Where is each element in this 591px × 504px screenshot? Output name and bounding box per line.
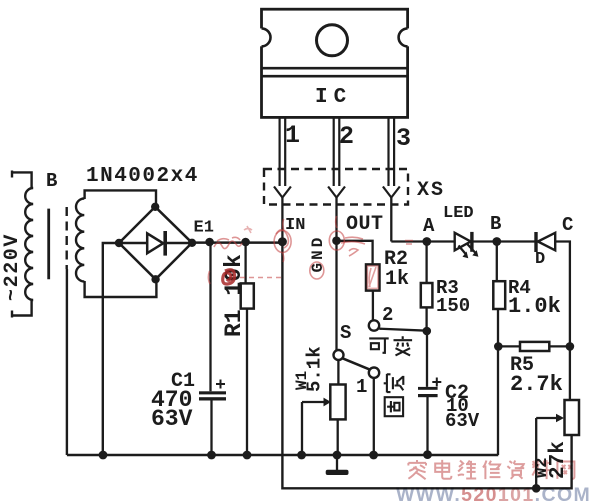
svg-text:S: S <box>340 322 351 344</box>
wire: contact 2 to node <box>379 329 427 331</box>
wire: bridge positive to IN node <box>192 241 283 244</box>
IC pin 2 <box>328 117 345 197</box>
node on outer bottom wire <box>532 484 541 493</box>
svg-text:1: 1 <box>356 376 367 398</box>
node A <box>422 237 431 246</box>
wire: bridge negative to ground rail <box>103 243 119 455</box>
IC package TO-220 <box>262 9 408 117</box>
node on GND line <box>332 236 341 245</box>
svg-text:1N4002x4: 1N4002x4 <box>86 165 199 188</box>
svg-text:1: 1 <box>285 121 300 150</box>
LED <box>455 233 471 251</box>
bridge vertex nodes <box>151 203 159 211</box>
svg-text:1k: 1k <box>385 268 409 291</box>
svg-text:XS: XS <box>417 179 445 202</box>
node R5 right <box>566 342 575 351</box>
node R1 top <box>241 238 250 247</box>
svg-text:63V: 63V <box>151 406 193 432</box>
svg-text:5.1k: 5.1k <box>304 346 326 392</box>
svg-text:LED: LED <box>443 204 474 223</box>
node R5 left <box>494 342 503 351</box>
svg-text:2: 2 <box>382 304 393 326</box>
bridge rectifier 1N4002x4 <box>119 207 192 279</box>
potentiometer W1 5.1k <box>302 360 338 455</box>
transformer B secondary winding <box>76 190 156 297</box>
transformer core bar <box>47 209 50 280</box>
node on contact2 wire / R3 / C2 <box>423 327 432 336</box>
svg-text:D: D <box>535 250 545 269</box>
svg-text:63V: 63V <box>445 410 480 432</box>
ground symbol <box>336 455 338 471</box>
potentiometer W2 27k <box>565 400 580 435</box>
svg-text:A: A <box>423 215 435 237</box>
resistor R5 2.7k <box>498 345 570 347</box>
svg-text:R1 10k: R1 10k <box>221 254 247 337</box>
wire: outer bottom (IN line to W2) <box>282 242 571 489</box>
wire: contact 1 to ground rail <box>373 378 375 455</box>
wire: shield to ground rail <box>66 269 68 455</box>
diode D <box>534 232 537 252</box>
label 固定 (fixed, rotated) <box>384 374 404 416</box>
IC tab separation double line <box>262 68 407 76</box>
wire: D to node C and down to W2 <box>555 242 570 401</box>
svg-text:B: B <box>46 170 57 192</box>
label 可变 (variable) <box>369 336 412 355</box>
capacitor C1 <box>211 242 212 455</box>
resistor R2 <box>337 241 373 321</box>
svg-text:C: C <box>562 214 573 236</box>
switch contact 2 <box>369 320 379 330</box>
IC mounting hole <box>317 25 348 56</box>
node B <box>492 237 501 246</box>
capacitor C2 <box>426 331 429 455</box>
transformer shield (dashed) <box>65 207 67 269</box>
resistor R1 <box>246 242 247 455</box>
svg-text:E1: E1 <box>194 219 214 238</box>
red blot over 0 of 10k <box>223 270 235 284</box>
svg-text:3: 3 <box>396 124 411 153</box>
svg-text:WWW.520101.COM: WWW.520101.COM <box>396 484 591 504</box>
transformer B primary winding <box>12 171 33 318</box>
IC pin 1 <box>274 117 291 197</box>
ground rail <box>67 454 498 457</box>
wire: pin3 OUT to node A <box>391 198 455 242</box>
wire: pin2 GND line to switch <box>335 198 337 351</box>
svg-text:IC: IC <box>315 86 352 109</box>
switch contact 1 <box>369 368 379 378</box>
IC pin 3 <box>383 117 400 197</box>
svg-text:2: 2 <box>339 122 354 151</box>
wire: LED to node B <box>473 240 534 242</box>
svg-text:OUT: OUT <box>346 213 384 236</box>
resistor R4 1.0k <box>497 242 498 456</box>
switch S common contact <box>334 350 344 360</box>
ground rail nodes <box>99 451 108 460</box>
node IN <box>278 237 287 246</box>
wire: pin1 to IN node <box>281 198 283 242</box>
svg-text:B: B <box>490 213 501 235</box>
svg-text:1.0k: 1.0k <box>508 294 561 319</box>
resistor R3 150 <box>425 242 427 332</box>
svg-text:150: 150 <box>436 295 470 317</box>
svg-text:GND: GND <box>309 235 327 273</box>
switch arm <box>343 358 370 369</box>
watermark: 家电维修资料网 (red) <box>408 460 574 479</box>
node E1 <box>205 238 214 247</box>
socket XS (dashed box) <box>264 169 408 205</box>
svg-text:~220V: ~220V <box>1 233 24 301</box>
watermark: red scribbles (faint) <box>208 216 413 288</box>
svg-text:2.7k: 2.7k <box>510 372 563 397</box>
